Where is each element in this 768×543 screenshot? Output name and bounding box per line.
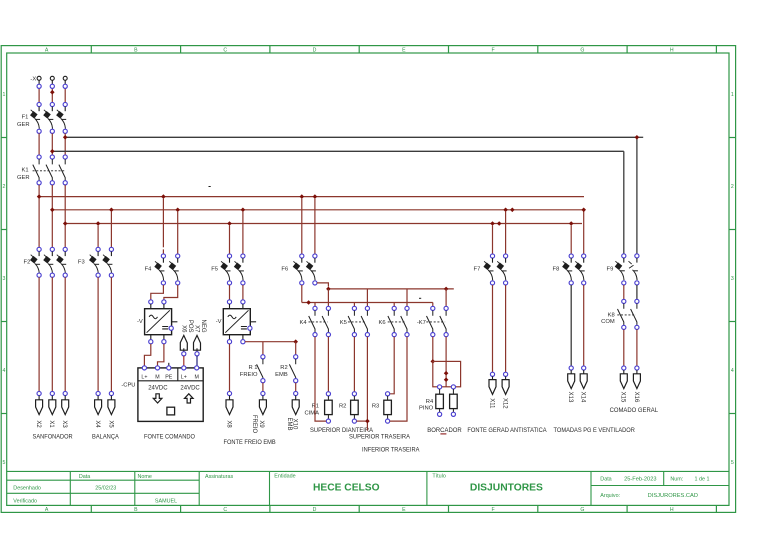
wire bus L2 to F5 right pole: [242, 212, 244, 254]
junction F7 left on bus L3: [490, 221, 495, 226]
terminal strip -X (supply terminals): [38, 80, 40, 84]
svg-text:-CPU: -CPU: [121, 382, 135, 388]
power supply U2 (-V) AC/DC: [227, 300, 231, 304]
wire K5 left to resistor R2: [353, 337, 355, 392]
wire F4 right to power supply U1: [164, 285, 178, 300]
wire R2 bottom to K5 right: [357, 420, 368, 422]
wire bus L3 to F3 left pole: [97, 226, 99, 248]
svg-text:1: 1: [3, 92, 6, 98]
CPU unit -CPU: [168, 363, 170, 366]
junction on K7 right wire: [444, 371, 449, 376]
svg-text:K5: K5: [340, 320, 347, 326]
svg-text:X5: X5: [107, 420, 113, 428]
wire K4 left to R1 bottom: [315, 337, 326, 421]
junction K7 left: [431, 359, 436, 364]
svg-text:X11: X11: [488, 398, 494, 409]
svg-text:X16: X16: [633, 392, 639, 403]
svg-text:SAMUEL: SAMUEL: [155, 499, 177, 505]
wire F3 pole1 to X4: [97, 277, 99, 391]
svg-text:X1: X1: [48, 420, 54, 428]
svg-text:X9: X9: [258, 420, 264, 428]
wire X6 to CPU L+: [183, 356, 185, 366]
svg-text:E: E: [402, 507, 406, 513]
svg-text:F3: F3: [78, 260, 85, 266]
svg-text:C: C: [223, 507, 227, 513]
svg-text:BALANÇA: BALANÇA: [92, 434, 119, 441]
svg-text:Data: Data: [600, 476, 611, 482]
junction feed to R2: [293, 339, 298, 344]
svg-text:R 1: R 1: [248, 365, 257, 371]
wire bus L1 to F6 left pole: [301, 199, 303, 254]
feed wire U2 to relays R1/R2: [245, 341, 296, 343]
svg-text:X14: X14: [580, 392, 586, 403]
distribution line B (lower): [302, 302, 433, 304]
wire L3 F1 to K1: [64, 133, 66, 155]
svg-text:4: 4: [3, 368, 6, 374]
circuit breaker F6 (2-pole): [300, 254, 304, 258]
svg-text:2: 2: [3, 184, 6, 190]
wire bus L2 to F7 right pole: [505, 212, 507, 254]
svg-text:HECE CELSO: HECE CELSO: [313, 482, 380, 493]
svg-text:C: C: [223, 47, 227, 53]
wire R2 to X10: [295, 383, 297, 392]
wire U1 M to CPU: [158, 344, 164, 366]
svg-text:F2: F2: [24, 260, 31, 266]
wire F6 right to distribution line A: [317, 283, 328, 287]
svg-text:FONTE GERAD ANTISTATICA: FONTE GERAD ANTISTATICA: [467, 427, 547, 434]
wire R1 to X9: [262, 383, 264, 392]
relay contact R1 FREIO: [261, 355, 265, 359]
svg-text:X4: X4: [94, 420, 100, 428]
svg-text:F7: F7: [474, 266, 481, 272]
svg-text:F6: F6: [281, 266, 288, 272]
junction on K7 right wire 2: [444, 377, 449, 382]
wire K6 left to resistor R3: [390, 337, 394, 394]
junction at black feeder corner: [635, 135, 640, 140]
svg-text:4: 4: [731, 368, 734, 374]
junction bus L1 start: [37, 194, 42, 199]
terminal X9 FREIO: [261, 391, 265, 395]
contactor K5 (2-pole): [352, 306, 356, 310]
wire line A down to K5 right pole: [366, 289, 368, 306]
svg-text:-X: -X: [30, 76, 36, 82]
wire L2 F1 to K1: [51, 133, 53, 155]
svg-text:5: 5: [731, 460, 734, 466]
bus L2 (horizontal): [52, 209, 583, 211]
circuit breaker F2 (3-pole): [37, 247, 41, 251]
power supply U1 (-V) AC/DC: [149, 300, 153, 304]
wire L3 from -X to F1: [64, 88, 66, 102]
circuit breaker F3 (2-pole): [96, 247, 100, 251]
svg-text:3: 3: [731, 276, 734, 282]
svg-text:3: 3: [3, 276, 6, 282]
wire bus L1 to F6 right pole: [314, 199, 316, 254]
svg-text:R3: R3: [372, 404, 379, 410]
junction F7 right on bus L2: [503, 208, 508, 213]
circuit breaker F8 (2-pole): [569, 254, 573, 258]
wire U1 L+ to CPU: [144, 344, 150, 366]
junction on L2: [50, 90, 55, 95]
bus L3 (horizontal): [65, 223, 582, 225]
svg-text:B: B: [134, 47, 138, 53]
terminal X6 POS (arrow up): [180, 335, 187, 350]
svg-text:X8: X8: [225, 420, 231, 428]
circuit breaker F7 (2-pole): [490, 254, 494, 258]
contactor K6 (2-pole): [392, 306, 396, 310]
svg-text:FONTE COMANDO: FONTE COMANDO: [144, 434, 195, 441]
wire bus L2 to F3 right pole: [110, 212, 112, 247]
wire F8 left to X13 (black): [570, 285, 572, 366]
svg-text:GER: GER: [17, 175, 30, 181]
stray mark 2: [419, 298, 421, 299]
svg-text:Data: Data: [79, 474, 90, 480]
junction bus L3 start: [63, 221, 68, 226]
junction F8 left on bus L3: [569, 221, 574, 226]
svg-text:POS: POS: [187, 320, 193, 333]
svg-text:DISJURORES.CAD: DISJURORES.CAD: [648, 493, 698, 499]
svg-text:F8: F8: [553, 266, 560, 272]
wire F7 right to X12: [505, 285, 507, 372]
terminal X4: [96, 391, 100, 395]
wire L2 from -X to F1: [51, 88, 53, 102]
junction F4 left on bus L1: [161, 194, 166, 199]
svg-text:FREIO: FREIO: [240, 372, 258, 378]
wire loop around R4 (rectangle): [433, 361, 461, 386]
svg-text:1: 1: [731, 92, 734, 98]
wire bus L3 to F5 left pole: [229, 226, 231, 254]
svg-text:FONTE FREIO EMB: FONTE FREIO EMB: [224, 439, 276, 446]
wire K5 right down (motor feed): [366, 337, 368, 431]
svg-text:24VDC: 24VDC: [148, 385, 168, 391]
wire line B down to K4 left pole: [314, 303, 316, 307]
svg-text:X12: X12: [502, 398, 508, 409]
junction marker on bus L3: [497, 221, 502, 226]
wire line B down to K6 left pole: [393, 303, 395, 307]
svg-text:Nome: Nome: [138, 474, 152, 480]
red mark under BORCADOR: [440, 433, 446, 435]
terminal X15: [622, 366, 626, 370]
wire bus L2 to F4 right pole: [177, 212, 179, 254]
junction F6 right on bus L1: [313, 194, 318, 199]
circuit breaker F5 (2-pole): [227, 254, 231, 258]
junction R2/K5: [365, 419, 370, 424]
svg-text:X7: X7: [194, 325, 200, 333]
wire line A down to K7 right pole: [445, 289, 447, 306]
svg-text:Assinaturas: Assinaturas: [205, 474, 233, 480]
stray mark 1: [209, 186, 211, 187]
svg-text:X13: X13: [567, 392, 573, 403]
svg-text:F5: F5: [211, 266, 218, 272]
svg-text:X6: X6: [181, 325, 187, 333]
svg-text:1 de 1: 1 de 1: [695, 476, 710, 482]
terminal X13: [569, 366, 573, 370]
wire L2 K1 to F2: [51, 185, 53, 247]
wire F2 pole1 to X2: [38, 277, 40, 391]
contactor K8 COM (2-pole): [622, 299, 626, 303]
wire L1 from -X to F1: [38, 88, 40, 102]
junction F5 left on bus L3: [227, 221, 232, 226]
svg-text:M: M: [155, 374, 159, 380]
junction bus L2 corner: [581, 208, 586, 213]
svg-text:-V: -V: [216, 319, 222, 325]
wire F4 left to power supply U1: [151, 285, 164, 300]
svg-text:F1: F1: [22, 115, 29, 121]
wire line B down to K7 left pole: [432, 303, 434, 307]
svg-text:L+: L+: [181, 374, 187, 380]
bus L1 (horizontal): [39, 196, 584, 198]
svg-text:Arquivo:: Arquivo:: [600, 493, 620, 499]
svg-text:F9: F9: [607, 266, 614, 272]
svg-text:SUPERIOR TRASEIRA: SUPERIOR TRASEIRA: [349, 433, 410, 440]
junction F5 right on bus L2: [241, 208, 246, 213]
terminal X16: [635, 366, 639, 370]
junction F4 right on bus L2: [175, 208, 180, 213]
wire F5 right to power supply U2: [242, 285, 244, 300]
contactor K1 GER (3-pole): [37, 155, 41, 159]
distribution line A (upper): [328, 288, 453, 290]
svg-text:R2: R2: [339, 404, 346, 410]
resistor R1: [326, 392, 330, 396]
svg-text:G: G: [580, 47, 584, 53]
black feeder wire from L2 to F9 (top): [52, 150, 624, 152]
svg-text:X2: X2: [35, 420, 41, 428]
wire bus L3 to F8 left pole: [570, 226, 572, 254]
svg-text:L+: L+: [141, 374, 147, 380]
terminal X11: [490, 372, 494, 376]
terminal X7 NEG (arrow up): [194, 335, 201, 350]
wire K6 right to R3 bottom: [390, 337, 407, 421]
junction L3 black feeder: [63, 135, 68, 140]
svg-text:COMADO GERAL: COMADO GERAL: [610, 407, 659, 414]
terminal X5: [109, 391, 113, 395]
junction F3 left on bus L3: [96, 221, 101, 226]
svg-text:25-Feb-2023: 25-Feb-2023: [624, 476, 656, 482]
svg-text:BORCADOR: BORCADOR: [427, 427, 462, 434]
wire K8 right to X16: [636, 330, 638, 366]
svg-text:B: B: [134, 507, 138, 513]
junction bus L2 start: [50, 208, 55, 213]
svg-text:D: D: [313, 47, 317, 53]
svg-text:CIMA: CIMA: [305, 410, 320, 416]
svg-text:F: F: [492, 47, 495, 53]
svg-text:A: A: [45, 507, 49, 513]
junction line A start: [326, 287, 331, 292]
wire F6 left to distribution line B: [301, 285, 303, 303]
svg-text:Entidade: Entidade: [274, 473, 295, 479]
svg-text:NEG: NEG: [200, 319, 206, 332]
terminal X3: [63, 391, 67, 395]
wire L1 F1 to K1: [38, 133, 40, 155]
svg-text:EMB: EMB: [286, 417, 292, 430]
terminal X14: [582, 366, 586, 370]
wire bus L2 corner down to F8 right pole: [583, 210, 585, 254]
svg-text:R2: R2: [280, 365, 287, 371]
svg-text:F4: F4: [145, 266, 153, 272]
terminal X8: [227, 391, 231, 395]
resistor R3: [386, 392, 390, 396]
svg-text:25/02/23: 25/02/23: [95, 486, 116, 492]
svg-text:M: M: [194, 374, 198, 380]
svg-text:K6: K6: [379, 320, 386, 326]
resistor R4a: [438, 385, 442, 389]
svg-text:X3: X3: [61, 420, 67, 428]
svg-text:K8: K8: [608, 312, 615, 318]
svg-text:X15: X15: [620, 392, 626, 403]
wire F2 pole2 to X1: [51, 277, 53, 391]
contactor K4 (2-pole): [313, 306, 317, 310]
svg-text:Verificado: Verificado: [13, 499, 37, 505]
svg-text:G: G: [580, 507, 584, 513]
wire line A down to K4 right pole: [327, 289, 329, 306]
svg-text:H: H: [670, 47, 674, 53]
svg-text:Título: Título: [432, 473, 445, 479]
svg-text:D: D: [313, 507, 317, 513]
wire F9 right to K8 (black): [636, 285, 638, 299]
wire bus L1 to F4 left pole: [162, 199, 164, 248]
wire feed to R2 EMB: [295, 342, 297, 355]
resistor R4b: [451, 385, 455, 389]
wire feed to R1 FREIO: [262, 342, 264, 355]
svg-text:PINO: PINO: [419, 406, 434, 412]
svg-text:K1: K1: [22, 167, 29, 173]
circuit breaker F9 (2-pole): [622, 254, 626, 258]
svg-text:24VDC: 24VDC: [180, 385, 200, 391]
wire K4 right to resistor R1: [327, 337, 329, 392]
circuit breaker F4 (2-pole): [161, 254, 165, 258]
contactor K7 (2-pole): [431, 306, 435, 310]
svg-text:GER: GER: [17, 122, 30, 128]
terminal X10 EMB: [294, 391, 298, 395]
resistor R2: [352, 392, 356, 396]
wire L1 K1 to F2: [38, 185, 40, 247]
svg-text:E: E: [402, 47, 406, 53]
svg-text:F: F: [492, 507, 495, 513]
wire F5 left to power supply U2: [229, 285, 231, 300]
black feeder wire from L3 to F9 (top): [65, 136, 637, 138]
svg-text:2: 2: [731, 184, 734, 190]
wire L3 K1 to F2: [64, 185, 66, 247]
svg-text:SANFONADOR: SANFONADOR: [33, 434, 73, 441]
wire U2 output to X8: [229, 344, 231, 392]
svg-text:Num:: Num:: [670, 476, 683, 482]
wire F3 pole2 to X5: [110, 277, 112, 391]
junction line A at K7: [444, 287, 449, 292]
junction on line B: [306, 300, 311, 305]
terminal X1: [50, 391, 54, 395]
wire K7 left to R4 network: [432, 337, 434, 362]
terminal X12: [504, 372, 508, 376]
wire bus L3 to F7 left pole: [492, 226, 494, 254]
junction marker on bus L2: [510, 208, 515, 213]
junction L2 black feeder: [50, 149, 55, 154]
circuit breaker F1 GER (3-pole): [30, 107, 40, 129]
wire F9 left to K8: [623, 285, 625, 299]
svg-text:EMB: EMB: [275, 372, 288, 378]
wire F8 right to X14: [583, 285, 585, 366]
svg-text:A: A: [45, 47, 49, 53]
svg-text:-V: -V: [137, 319, 143, 325]
svg-text:Desenhado: Desenhado: [13, 486, 41, 492]
terminal X2: [37, 391, 41, 395]
wire F2 pole3 to X3: [64, 277, 66, 391]
wire line B down to K5 left pole: [353, 303, 355, 307]
wire X7 to CPU M (dark blue): [196, 356, 198, 366]
relay contact R2 EMB: [294, 355, 298, 359]
svg-text:FREIO: FREIO: [251, 415, 257, 434]
svg-text:K4: K4: [300, 320, 308, 326]
svg-text:-K7: -K7: [417, 320, 426, 326]
svg-text:5: 5: [3, 460, 6, 466]
wire K8 left to X15: [623, 330, 625, 366]
wire line A down to K6 right pole: [406, 289, 408, 306]
junction F6 left on bus L1: [300, 194, 305, 199]
wire K7 right through R4 network: [445, 337, 447, 387]
wire F7 left to X11: [492, 285, 494, 372]
svg-text:COM: COM: [601, 319, 615, 325]
junction F3 right on bus L2: [109, 208, 114, 213]
svg-text:PE: PE: [165, 374, 173, 380]
svg-text:H: H: [670, 507, 674, 513]
svg-text:R4: R4: [426, 399, 434, 405]
svg-text:INFERIOR TRASEIRA: INFERIOR TRASEIRA: [362, 447, 420, 454]
svg-text:DISJUNTORES: DISJUNTORES: [470, 483, 543, 494]
svg-text:TOMADAS PG E VENTILADOR: TOMADAS PG E VENTILADOR: [554, 427, 636, 434]
